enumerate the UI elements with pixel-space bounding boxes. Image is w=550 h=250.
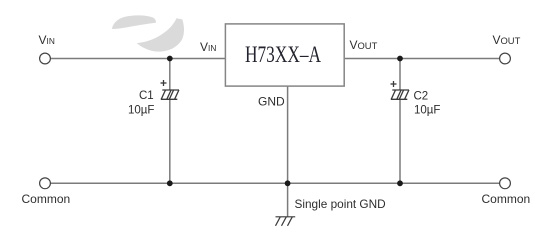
svg-text:C2: C2 xyxy=(414,91,429,103)
node: junction common rail / GND stub xyxy=(285,180,291,186)
terminal: VIN input terminal xyxy=(39,33,55,64)
watermark xyxy=(112,15,184,51)
terminal: VOUT output terminal xyxy=(493,33,521,64)
regulator U1 H73XX-A xyxy=(225,24,344,86)
svg-text:VOUT: VOUT xyxy=(493,33,521,47)
wire: stub from common rail to single point ground xyxy=(287,183,289,217)
svg-text:Common: Common xyxy=(482,192,531,206)
svg-text:10µF: 10µF xyxy=(128,105,154,117)
wire: C2 branch lower segment xyxy=(399,99,401,183)
svg-text:10µF: 10µF xyxy=(414,105,440,117)
capacitor C1 (polarized 10uF) xyxy=(161,80,180,99)
node: junction common rail / C2 xyxy=(397,180,403,186)
svg-text:Common: Common xyxy=(22,192,71,206)
svg-text:H73XX–A: H73XX–A xyxy=(245,42,321,67)
node: junction output rail / C2 xyxy=(397,56,403,62)
wire: output rail from regulator to VOUT terminal xyxy=(345,58,500,60)
wire: bottom common rail xyxy=(51,182,500,184)
wire: C1 branch upper segment xyxy=(169,59,171,91)
ground: single point ground symbol xyxy=(276,217,296,226)
wire: GND branch from regulator to common rail xyxy=(287,86,289,183)
svg-text:C1: C1 xyxy=(139,90,154,102)
wire: C2 branch upper segment xyxy=(399,59,401,91)
svg-text:GND: GND xyxy=(258,95,285,109)
svg-text:VIN: VIN xyxy=(200,40,216,54)
svg-text:VIN: VIN xyxy=(39,33,55,47)
node: junction input rail / C1 xyxy=(167,56,173,62)
svg-text:VOUT: VOUT xyxy=(350,38,378,52)
node: junction common rail / C1 xyxy=(167,180,173,186)
wire: C1 branch lower segment xyxy=(169,99,171,183)
capacitor C2 (polarized 10uF) xyxy=(391,81,410,99)
svg-text:Single point GND: Single point GND xyxy=(295,197,386,211)
terminal: Common left xyxy=(22,178,71,206)
wire: input rail from VIN terminal to regulator xyxy=(51,58,227,60)
terminal: Common right xyxy=(482,178,531,206)
